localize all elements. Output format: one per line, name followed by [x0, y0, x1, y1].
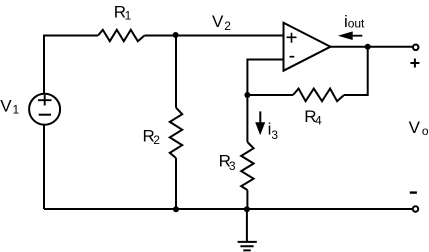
svg-text:2: 2: [153, 133, 160, 147]
wire: inverting input to feedback corner: [247, 60, 283, 96]
wire: R2 top lead from node V2: [175, 36, 177, 108]
op-amp minus input symbol: [290, 56, 295, 58]
resistor R2: [170, 108, 182, 158]
wire: ground stem: [246, 209, 248, 242]
svg-text:1: 1: [125, 8, 132, 22]
terminal: + output: [413, 45, 419, 51]
svg-text:4: 4: [315, 114, 322, 128]
V1 plus symbol: [38, 95, 52, 106]
label: - at output terminal: [410, 191, 417, 193]
svg-text:3: 3: [271, 128, 278, 142]
current arrow i3 (points down): [259, 111, 261, 124]
svg-text:V: V: [409, 118, 421, 137]
resistor R4: [293, 89, 344, 102]
resistor R1: [98, 30, 145, 41]
ground: [238, 242, 257, 251]
svg-text:1: 1: [13, 103, 20, 117]
current arrow i_out (points left): [350, 35, 362, 37]
op-amp U1: [284, 23, 331, 71]
svg-text:2: 2: [224, 19, 231, 33]
svg-text:3: 3: [229, 159, 236, 173]
wire: bottom rail: [44, 208, 412, 210]
node: feedback junction dot: [244, 92, 250, 98]
label: + at output terminal: [410, 59, 419, 68]
voltage source V1: [29, 94, 60, 125]
wire: left rail top (top rail down to V1 source): [43, 35, 45, 94]
wire: R1 to op-amp noninverting input: [145, 35, 284, 37]
wire: R2 bottom lead: [175, 158, 177, 209]
node V2 junction dot: [173, 32, 179, 38]
wire: R4 right lead up to output node: [344, 47, 368, 95]
node: ground junction dot: [244, 206, 250, 212]
wire: R4 left lead: [247, 94, 293, 96]
node: output junction dot: [365, 44, 371, 50]
wire: R3 bottom lead: [246, 190, 248, 209]
wire: top rail from V1 to R1: [44, 35, 98, 37]
resistor R3: [241, 142, 253, 190]
svg-text:o: o: [422, 124, 429, 138]
op-amp plus input symbol: [287, 33, 297, 43]
svg-text:V: V: [0, 97, 12, 116]
node: R2 bottom junction dot: [173, 206, 179, 212]
svg-text:out: out: [348, 17, 365, 31]
terminal: - output: [413, 206, 418, 211]
wire: left rail bottom (V1 source down to bottom rail): [43, 125, 45, 209]
svg-text:V: V: [212, 12, 224, 31]
wire: op-amp output to + terminal: [331, 46, 413, 48]
wire: R3 top lead: [246, 95, 248, 142]
V1 minus symbol: [39, 114, 51, 116]
